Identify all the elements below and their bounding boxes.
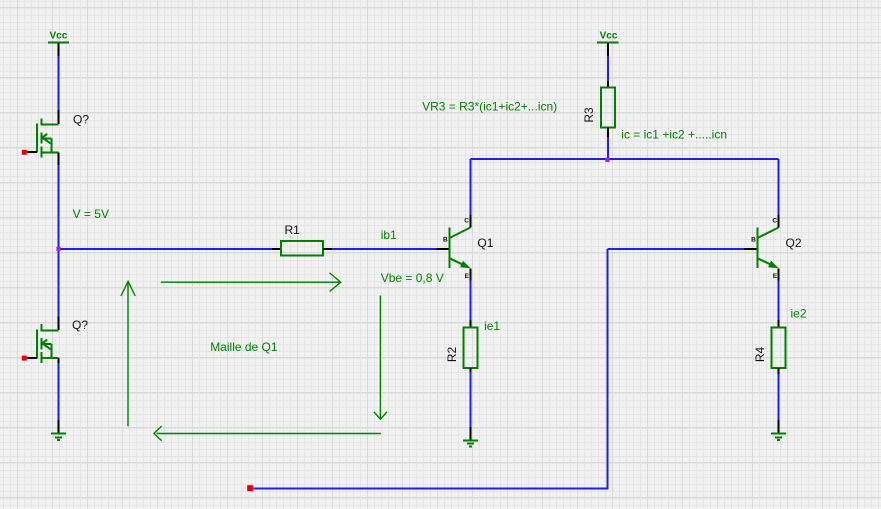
svg-text:R3: R3 bbox=[582, 107, 596, 123]
ground (left) bbox=[51, 434, 66, 440]
wire bottom feedback run bbox=[253, 249, 744, 490]
svg-text:Vcc: Vcc bbox=[50, 30, 68, 41]
terminal marker (red square, upper gate) bbox=[22, 150, 27, 155]
svg-text:ie2: ie2 bbox=[791, 307, 807, 321]
svg-text:Q?: Q? bbox=[73, 113, 89, 127]
wire R1 to Q1 base bbox=[332, 248, 436, 250]
wire Vcc to Q? drain bbox=[57, 56, 59, 110]
svg-text:R4: R4 bbox=[753, 347, 767, 363]
svg-text:E: E bbox=[773, 273, 778, 280]
svg-text:VR3 = R3*(ic1+ic2+...icn): VR3 = R3*(ic1+ic2+...icn) bbox=[422, 99, 557, 113]
wire Q1 emitter to R2 bbox=[469, 280, 471, 320]
node junction at R3 bbox=[605, 158, 609, 162]
annotation arrow right (top of mesh) bbox=[161, 273, 341, 292]
svg-text:Q1: Q1 bbox=[477, 236, 493, 250]
annotation arrow up (left of mesh) bbox=[121, 281, 135, 426]
wire R2 to ground bbox=[469, 372, 471, 427]
transistor Q? (lower MOSFET) bbox=[27, 316, 59, 363]
terminal marker (red square, lower gate) bbox=[22, 356, 27, 361]
svg-text:Vcc: Vcc bbox=[600, 30, 618, 41]
node junction at left rail bbox=[56, 247, 60, 251]
svg-text:B: B bbox=[443, 237, 448, 244]
transistor Q1 bbox=[437, 215, 471, 280]
svg-text:C: C bbox=[772, 218, 777, 225]
wire Q2 emitter to R4 bbox=[778, 280, 780, 320]
power symbol Vcc (right) bbox=[597, 30, 618, 56]
wire lower Q? source to ground bbox=[57, 363, 59, 420]
wire R3 to node bbox=[607, 137, 609, 159]
wire Q1 collector to node line bbox=[469, 159, 471, 215]
svg-text:C: C bbox=[464, 218, 469, 225]
wire main rail to R1 bbox=[57, 248, 271, 250]
svg-text:Maille de Q1: Maille de Q1 bbox=[210, 340, 278, 354]
annotation arrow down (right of mesh) bbox=[374, 296, 387, 420]
wire node line down to Q2 collector bbox=[778, 159, 780, 215]
svg-text:R1: R1 bbox=[285, 223, 301, 237]
svg-text:Vbe = 0,8 V: Vbe = 0,8 V bbox=[381, 271, 444, 285]
resistor R4 bbox=[771, 320, 785, 374]
wire collector node line bbox=[470, 158, 778, 160]
ground (under R4) bbox=[771, 434, 786, 440]
transistor Q? (upper MOSFET) bbox=[27, 110, 59, 165]
ground (under R2) bbox=[463, 440, 478, 446]
svg-text:B: B bbox=[751, 237, 756, 244]
svg-text:E: E bbox=[465, 273, 470, 280]
svg-text:Q?: Q? bbox=[72, 318, 88, 332]
wire R4 to ground bbox=[778, 374, 780, 420]
transistor Q2 bbox=[745, 215, 779, 280]
resistor R2 bbox=[463, 320, 477, 372]
svg-text:V = 5V: V = 5V bbox=[73, 207, 109, 221]
svg-text:ib1: ib1 bbox=[381, 228, 397, 242]
annotation arrow left (bottom of mesh) bbox=[154, 426, 381, 441]
power symbol Vcc (left) bbox=[48, 30, 69, 56]
resistor R1 bbox=[272, 241, 332, 256]
terminal marker (red square, bottom wire) bbox=[247, 485, 253, 491]
wire upper Q? source to lower Q? drain bbox=[57, 165, 59, 316]
svg-text:ic = ic1 +ic2 +.....icn: ic = ic1 +ic2 +.....icn bbox=[621, 127, 727, 141]
resistor R3 bbox=[601, 81, 615, 137]
svg-text:ie1: ie1 bbox=[484, 319, 500, 333]
wire Vcc to R3 bbox=[607, 56, 609, 81]
svg-text:Q2: Q2 bbox=[786, 236, 802, 250]
svg-text:R2: R2 bbox=[445, 347, 459, 363]
